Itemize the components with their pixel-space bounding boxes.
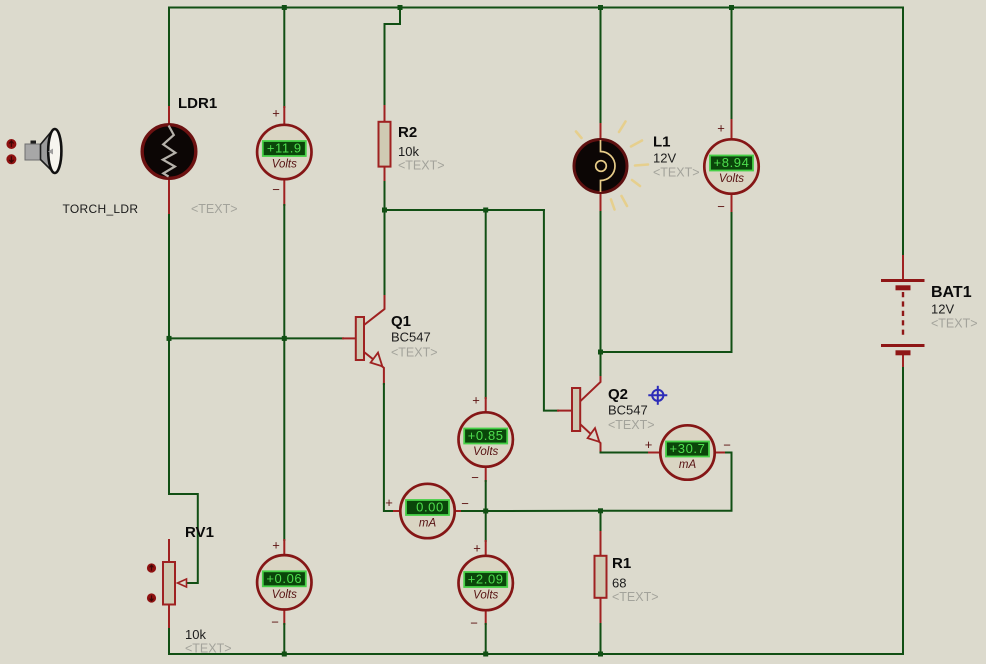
torch icon beam arrow	[48, 149, 53, 155]
wire Q2 emitter pin	[581, 425, 601, 453]
svg-text:−: −	[461, 496, 469, 511]
svg-text:BAT1: BAT1	[931, 284, 972, 301]
junction base rail / V1-V4 column	[282, 336, 287, 341]
svg-text:+2.09: +2.09	[468, 572, 504, 587]
svg-text:<TEXT>: <TEXT>	[398, 159, 445, 173]
junction top rail / V2	[729, 5, 734, 10]
wire L1 top (from top rail)	[600, 8, 602, 125]
svg-text:BC547: BC547	[608, 403, 648, 418]
svg-text:12V: 12V	[931, 302, 954, 317]
wire left vertical lower (LDR1 to base node)	[168, 215, 170, 338]
svg-text:+: +	[472, 393, 480, 408]
wire V4 voltmeter top (from base node)	[283, 338, 285, 540]
transistor Q2 emitter arrowhead	[588, 428, 600, 442]
lamp L1 filament loop	[596, 161, 607, 172]
svg-text:<TEXT>: <TEXT>	[185, 642, 232, 656]
wire top rail	[169, 7, 903, 9]
wire V1 top pin stub	[283, 107, 285, 126]
resistor R1	[595, 556, 607, 598]
wire V2 top pin stub	[731, 120, 733, 140]
svg-text:Volts: Volts	[272, 159, 297, 171]
svg-text:68: 68	[612, 576, 626, 591]
RV1 wiper arrow	[178, 579, 187, 587]
wire Q1 collector vertical (node row down)	[384, 210, 386, 296]
wire L1 bottom to collector node	[600, 212, 602, 352]
ammeter A2 (Q2 emitter)	[645, 425, 731, 479]
wire V2 bottom pin stub	[731, 193, 733, 213]
potentiometer RV1 body	[163, 562, 175, 605]
torch terminal dot lower	[6, 154, 16, 164]
wire RV1 top pin stub (unconnected)	[168, 540, 170, 562]
svg-text:0.00: 0.00	[416, 500, 444, 515]
LDR1 zigzag element	[163, 126, 176, 177]
junction bottom rail / V4	[282, 652, 287, 657]
wire A2 left pin stub	[649, 452, 661, 454]
RV1 knob upper	[147, 563, 156, 572]
voltmeter V3 (Q2 base-emitter)	[459, 393, 513, 486]
svg-text:LDR1: LDR1	[178, 95, 217, 112]
svg-text:mA: mA	[419, 518, 437, 530]
wire L1 top pin stub	[600, 124, 602, 140]
svg-text:12V: 12V	[653, 151, 676, 166]
transistor Q1 base bar	[356, 317, 364, 360]
svg-text:Volts: Volts	[272, 589, 297, 601]
svg-text:+: +	[717, 121, 725, 136]
wire V4 bottom to bottom rail	[283, 624, 285, 654]
ammeter A1 (Q1 emitter)	[385, 484, 469, 538]
wire left vertical to RV1 wiper jog	[169, 338, 198, 583]
svg-text:R1: R1	[612, 555, 631, 572]
origin crosshair marker	[648, 386, 667, 405]
junction top rail / L1	[598, 5, 603, 10]
svg-text:−: −	[272, 182, 280, 197]
junction node row / V3	[483, 208, 488, 213]
wire LDR1 bottom pin stub	[168, 178, 170, 215]
resistor R2	[379, 122, 391, 167]
wire emitter node row (V5 node to R1 node)	[486, 510, 601, 512]
wire V3 bottom pin stub	[485, 466, 487, 481]
wire Q2 base column vertical	[544, 210, 558, 411]
wire RV1 bottom to bottom rail	[168, 627, 170, 654]
wire right vertical upper (top rail to BAT1)	[902, 8, 904, 257]
svg-text:+11.9: +11.9	[267, 141, 302, 156]
wire Q1 base rail horizontal	[169, 337, 343, 339]
svg-text:+8.94: +8.94	[714, 155, 750, 170]
svg-text:10k: 10k	[398, 144, 419, 159]
junction base rail / left vertical	[167, 336, 172, 341]
svg-text:+: +	[385, 495, 393, 510]
wire A2 to R1 top node	[601, 453, 732, 511]
svg-text:<TEXT>: <TEXT>	[653, 166, 700, 180]
BAT1 cell2 long plate	[881, 344, 925, 347]
svg-text:10k: 10k	[185, 627, 206, 642]
battery BAT1	[881, 281, 925, 353]
wire V4 bottom pin stub	[283, 609, 285, 624]
wire A1 right pin stub	[455, 510, 463, 512]
svg-text:Q1: Q1	[391, 313, 411, 330]
wire L1 bottom pin stub	[600, 192, 602, 212]
svg-text:−: −	[723, 438, 731, 453]
svg-text:+: +	[645, 437, 653, 452]
wire V2 bottom to collector node	[601, 213, 732, 352]
wire R1 bottom to bottom rail	[600, 624, 602, 654]
svg-text:+: +	[272, 538, 280, 553]
wire V1 voltmeter top (from top rail)	[283, 8, 285, 108]
wire V3 voltmeter top (from node row)	[485, 210, 487, 398]
junction L1 bottom / Q2 collector	[598, 350, 603, 355]
BAT1 cell2 short plate	[896, 350, 911, 355]
wire V5 bottom pin stub	[485, 610, 487, 624]
wire Q1 emitter down to A1 ammeter	[384, 384, 394, 511]
junction bottom rail / V5	[483, 652, 488, 657]
junction bottom rail / R1	[598, 652, 603, 657]
transistor Q1 emitter arrowhead	[371, 353, 383, 367]
wire R2 top jog from top rail	[385, 8, 401, 107]
voltmeter V4 (RV1)	[257, 538, 311, 630]
wire R2 bottom pin stub	[384, 167, 386, 183]
wire bottom rail	[169, 653, 903, 655]
svg-text:Volts: Volts	[719, 173, 744, 185]
wire Q2 emitter to A2 ammeter	[601, 452, 650, 454]
svg-text:<TEXT>: <TEXT>	[612, 590, 659, 604]
svg-text:−: −	[271, 615, 279, 630]
voltmeter V2 (lamp)	[704, 121, 758, 215]
torch icon cone	[41, 132, 52, 170]
transistor Q2 base bar	[572, 388, 580, 431]
BAT1 cell1 short plate	[896, 285, 911, 290]
torch terminal dot upper	[6, 139, 16, 149]
wire R1 top pin stub	[600, 532, 602, 556]
wire R2 bottom to node row	[384, 182, 386, 210]
wire V1 bottom to base node rail	[283, 205, 285, 338]
wire R1 bottom pin stub	[600, 598, 602, 625]
BAT1 cell1 long plate	[881, 279, 925, 282]
svg-text:R2: R2	[398, 124, 417, 141]
junction emitter row / V5	[483, 509, 488, 514]
svg-text:RV1: RV1	[185, 524, 214, 541]
junction node row / Q1 collector	[382, 208, 387, 213]
junction top rail / V1	[282, 5, 287, 10]
RV1 knob lower	[147, 593, 156, 602]
svg-text:<TEXT>: <TEXT>	[191, 202, 238, 216]
lamp L1 body	[574, 140, 627, 193]
wire V3 top pin stub	[485, 398, 487, 413]
wire Q1 collector pin	[364, 296, 385, 325]
wire BAT1 bottom pin stub	[902, 354, 904, 368]
wire RV1 wiper pin	[179, 582, 186, 584]
svg-text:+30.7: +30.7	[670, 441, 706, 456]
wire LDR1 top pin stub	[168, 107, 170, 125]
wire V2 voltmeter top (from top rail)	[731, 8, 733, 121]
wire V5 voltmeter top (from emitter node)	[485, 511, 487, 541]
svg-text:Volts: Volts	[473, 590, 498, 602]
wire left vertical upper (top rail to LDR1)	[168, 8, 170, 108]
voltmeter V1 (LDR)	[257, 106, 311, 198]
wire Q2 base pin stub	[558, 410, 572, 412]
wire V5 bottom to bottom rail	[485, 624, 487, 654]
wire Q2 collector pin	[581, 377, 601, 401]
svg-text:−: −	[717, 199, 725, 214]
wire R2 top pin stub	[384, 106, 386, 122]
svg-text:mA: mA	[679, 459, 697, 471]
svg-text:BC547: BC547	[391, 330, 431, 345]
svg-text:+: +	[272, 106, 280, 121]
svg-text:<TEXT>: <TEXT>	[391, 346, 438, 360]
wire Q1 base pin stub	[343, 337, 356, 339]
svg-text:Volts: Volts	[473, 446, 498, 458]
wire V5 top pin stub	[485, 541, 487, 557]
voltmeter V5 (Q1 emitter node)	[459, 541, 513, 631]
wire right vertical lower (BAT1 to bottom rail)	[902, 368, 904, 654]
svg-text:L1: L1	[653, 134, 671, 151]
wire node row horizontal (R2 bottom to Q2 base column)	[385, 209, 544, 211]
svg-text:−: −	[471, 470, 479, 485]
BAT1 dashed link	[902, 292, 904, 338]
wire V1 bottom pin stub	[283, 178, 285, 205]
svg-text:TORCH_LDR: TORCH_LDR	[63, 202, 139, 216]
lamp L1 filament	[601, 140, 616, 192]
wire A2 right pin stub	[715, 452, 727, 454]
torch icon body	[25, 141, 41, 161]
wire A1 to V5 node	[462, 510, 486, 512]
svg-text:+0.85: +0.85	[468, 428, 504, 443]
wire Q1 emitter pin	[364, 352, 384, 384]
svg-text:+0.06: +0.06	[266, 571, 302, 586]
svg-text:<TEXT>: <TEXT>	[931, 317, 978, 331]
svg-text:Q2: Q2	[608, 386, 628, 403]
lamp L1 light rays	[576, 122, 648, 210]
svg-text:−: −	[470, 616, 478, 631]
wire R1 top vertical	[600, 511, 602, 532]
svg-text:<TEXT>: <TEXT>	[608, 418, 655, 432]
wire RV1 bottom pin stub	[168, 605, 170, 628]
junction top rail / R2 jog	[398, 5, 403, 10]
svg-text:+: +	[473, 541, 481, 556]
junction emitter row / R1	[598, 508, 603, 513]
wire BAT1 top pin stub	[902, 256, 904, 279]
wire V3 bottom to emitter node	[485, 481, 487, 511]
wire V4 top pin stub	[283, 540, 285, 556]
wire Q2 collector vertical	[600, 352, 602, 377]
LDR1 photoresistor body	[142, 125, 196, 179]
torch icon lens ellipse	[48, 129, 61, 173]
wire A1 left pin stub	[394, 510, 401, 512]
